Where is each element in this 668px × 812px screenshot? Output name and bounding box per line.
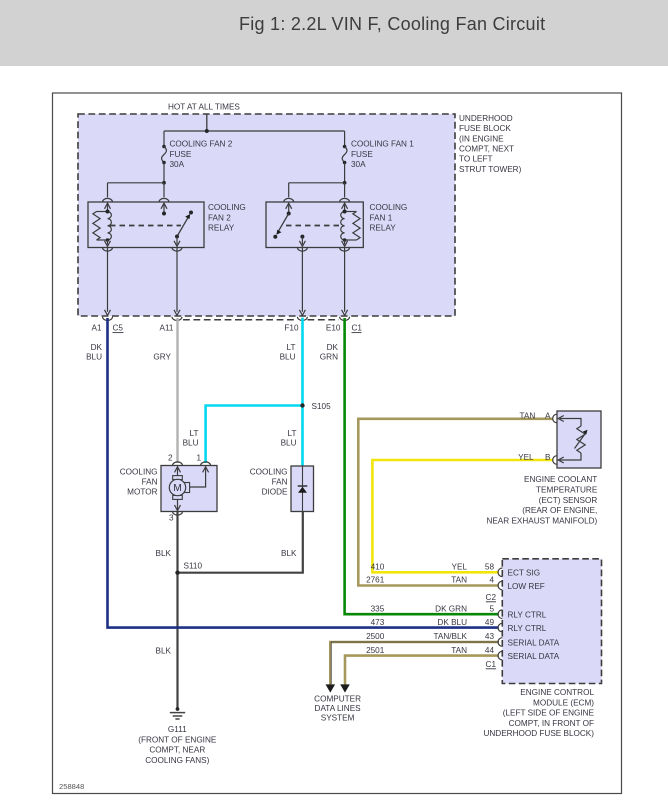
svg-text:FAN 2: FAN 2: [208, 213, 231, 222]
svg-text:TAN: TAN: [520, 411, 536, 420]
wire: relay K1 coil low to terminal E10: [342, 248, 348, 315]
ECT sensor pin B connector: [545, 453, 564, 464]
svg-text:FUSE BLOCK: FUSE BLOCK: [459, 124, 511, 133]
ECT thermistor: [560, 419, 588, 461]
svg-text:E10: E10: [326, 324, 341, 333]
svg-text:TAN/BLK: TAN/BLK: [433, 632, 467, 641]
relay K2 coil-switch link (dashed): [110, 225, 181, 227]
svg-text:COMPT, NEXT: COMPT, NEXT: [459, 144, 514, 153]
svg-text:FUSE: FUSE: [170, 150, 192, 159]
svg-text:DK GRN: DK GRN: [435, 604, 467, 613]
svg-text:5: 5: [489, 604, 494, 613]
cooling fan diode box: [250, 466, 314, 512]
svg-text:BLU: BLU: [86, 353, 102, 362]
node: computer data lines system: [314, 695, 361, 723]
svg-text:ENGINE COOLANT: ENGINE COOLANT: [524, 475, 597, 484]
motor pin 3 connector: [169, 499, 183, 522]
svg-text:44: 44: [485, 646, 495, 655]
svg-text:UNDERHOOD: UNDERHOOD: [459, 114, 513, 123]
wire: DK BLU circuit 473 (relay K2 coil low to ECM pin 49): [86, 318, 499, 628]
svg-text:335: 335: [371, 604, 385, 613]
relay K2 bottom pin (coil low) connector: [103, 240, 113, 251]
svg-text:LT: LT: [287, 343, 296, 352]
terminal E10 / connector C1: [326, 317, 362, 333]
svg-text:C1: C1: [352, 324, 363, 333]
splice S105: [300, 402, 331, 411]
svg-text:C2: C2: [486, 593, 497, 602]
svg-text:DK BLU: DK BLU: [437, 618, 467, 627]
svg-text:COOLING: COOLING: [370, 203, 408, 212]
svg-text:HOT AT ALL TIMES: HOT AT ALL TIMES: [168, 103, 240, 112]
svg-text:ENGINE CONTROL: ENGINE CONTROL: [520, 688, 594, 697]
wire: DK GRN circuit 335 (relay K1 coil low to ECM pin 5): [320, 318, 499, 614]
svg-text:BLU: BLU: [281, 439, 297, 448]
svg-text:BLU: BLU: [280, 353, 296, 362]
svg-text:DATA LINES: DATA LINES: [315, 704, 362, 713]
wire: YEL circuit 410 (ECT sensor pin B to ECM pin 58, ECT SIG): [371, 453, 553, 572]
svg-text:FAN 1: FAN 1: [370, 213, 393, 222]
wire: battery feed bus: [164, 115, 345, 134]
motor symbol: [169, 476, 189, 500]
svg-text:BLK: BLK: [156, 549, 172, 558]
svg-text:43: 43: [485, 632, 495, 641]
relay K2 top pin (switch feed) connector: [159, 198, 169, 215]
wire: GRY (relay K2 switch out to motor pin 2): [153, 318, 177, 463]
terminal A1 / connector C5: [91, 317, 123, 333]
svg-text:(FRONT OF ENGINE: (FRONT OF ENGINE: [138, 735, 217, 744]
svg-text:1: 1: [196, 454, 201, 463]
svg-text:COOLING: COOLING: [208, 203, 246, 212]
svg-text:M: M: [173, 483, 181, 494]
relay K1 top pin (switch feed) connector: [284, 198, 294, 215]
svg-text:FAN: FAN: [142, 478, 158, 487]
wire: fuse F2 output to relay K2 pins: [108, 163, 166, 198]
wire: BLK from motor pin 3 to S110 and ground G111: [156, 512, 178, 708]
svg-text:COOLING FAN 2: COOLING FAN 2: [170, 140, 233, 149]
svg-text:LOW REF: LOW REF: [508, 582, 545, 591]
relay K1 bottom pin (switch out) connector: [297, 235, 307, 251]
relay K2 bottom pin (switch out) connector: [172, 237, 182, 252]
terminal A11: [160, 317, 182, 333]
svg-text:258848: 258848: [59, 782, 84, 791]
svg-text:2761: 2761: [366, 576, 385, 585]
svg-text:2500: 2500: [366, 632, 385, 641]
svg-text:STRUT TOWER): STRUT TOWER): [459, 165, 522, 174]
svg-text:RLY CTRL: RLY CTRL: [508, 624, 547, 633]
relay K2 top pin (coil feed) connector: [103, 198, 113, 213]
ECM pin 44 SERIAL DATA: [498, 651, 560, 661]
svg-text:58: 58: [485, 563, 495, 572]
underhood fuse block (dashed box): [78, 114, 522, 320]
svg-text:MOTOR: MOTOR: [127, 487, 157, 496]
svg-text:30A: 30A: [351, 160, 366, 169]
svg-text:RELAY: RELAY: [208, 224, 235, 233]
svg-text:FAN: FAN: [272, 478, 288, 487]
svg-text:COOLING: COOLING: [120, 468, 158, 477]
svg-text:GRY: GRY: [153, 353, 171, 362]
svg-text:RLY CTRL: RLY CTRL: [508, 611, 547, 620]
svg-text:ECT SIG: ECT SIG: [508, 569, 541, 578]
relay K2 coil: [93, 210, 111, 242]
svg-text:30A: 30A: [170, 160, 185, 169]
svg-text:(IN ENGINE: (IN ENGINE: [459, 134, 504, 143]
relay K1 coil: [341, 210, 360, 242]
motor pin 2 connector: [168, 454, 183, 476]
relay K1 coil-switch link (dashed): [286, 225, 341, 227]
svg-text:LT: LT: [288, 429, 297, 438]
svg-text:TO LEFT: TO LEFT: [459, 155, 493, 164]
svg-text:BLU: BLU: [183, 439, 199, 448]
svg-text:2: 2: [168, 454, 173, 463]
wire: fuse F1 output to relay K1 pins: [289, 163, 347, 198]
svg-text:BLK: BLK: [156, 647, 172, 656]
svg-text:LT: LT: [190, 429, 199, 438]
wire: TAN/BLK circuit 2500 (ECM pin 43 serial data): [326, 632, 499, 692]
svg-text:G111: G111: [168, 725, 187, 734]
ECT sensor pin A connector: [545, 411, 564, 422]
svg-text:S110: S110: [184, 562, 203, 571]
ECM pin 5 RLY CTRL: [498, 610, 547, 620]
svg-text:MODULE (ECM): MODULE (ECM): [533, 698, 594, 707]
svg-text:A1: A1: [91, 324, 101, 333]
svg-text:COOLING FANS): COOLING FANS): [145, 756, 209, 765]
svg-text:YEL: YEL: [518, 453, 534, 462]
relay K2: COOLING FAN 2 RELAY box: [88, 202, 246, 248]
wire: TAN circuit 2501 (ECM pin 44 serial data): [340, 646, 499, 692]
svg-text:TAN: TAN: [451, 576, 467, 585]
ECT sensor box: [486, 411, 601, 525]
svg-text:2501: 2501: [366, 646, 385, 655]
svg-text:SERIAL DATA: SERIAL DATA: [508, 638, 560, 647]
wire: relay K1 switch out to terminal F10: [299, 248, 305, 315]
svg-text:Fig 1: 2.2L VIN F, Cooling Fan: Fig 1: 2.2L VIN F, Cooling Fan Circuit: [239, 14, 545, 34]
ECM pin 4 LOW REF: [498, 581, 545, 591]
relay K1 switch blade: [273, 214, 288, 239]
svg-text:DK: DK: [327, 343, 339, 352]
svg-text:B: B: [545, 453, 551, 462]
relay K2 switch blade: [175, 211, 193, 239]
svg-text:A: A: [545, 411, 551, 420]
wire: LT BLU circuit (relay K1 switch out to S105, motor pin 1, diode): [183, 318, 303, 466]
fuse F1: COOLING FAN 1 FUSE 30A: [342, 131, 414, 169]
ground G111: [138, 707, 217, 765]
wire: BLK from diode to S110: [178, 512, 303, 573]
svg-text:COOLING: COOLING: [250, 468, 288, 477]
svg-text:UNDERHOOD FUSE BLOCK): UNDERHOOD FUSE BLOCK): [483, 729, 594, 738]
svg-text:COMPT, NEAR: COMPT, NEAR: [149, 746, 205, 755]
ECM pin 43 SERIAL DATA: [498, 638, 560, 648]
svg-text:C5: C5: [113, 324, 124, 333]
ECM connector C1: [486, 660, 497, 669]
engine control module (ECM) box: [483, 559, 601, 738]
svg-text:(ECT) SENSOR: (ECT) SENSOR: [539, 496, 598, 505]
svg-text:4: 4: [489, 576, 494, 585]
diode symbol: [298, 466, 308, 512]
svg-text:(REAR OF ENGINE,: (REAR OF ENGINE,: [522, 506, 597, 515]
wire: TAN circuit 2761 (ECT sensor pin A to ECM pin 4, LOW REF): [358, 411, 553, 585]
svg-text:NEAR EXHAUST MANIFOLD): NEAR EXHAUST MANIFOLD): [486, 516, 597, 525]
svg-text:COMPT, IN FRONT OF: COMPT, IN FRONT OF: [509, 719, 594, 728]
svg-text:S105: S105: [312, 402, 332, 411]
terminal F10: [284, 317, 307, 333]
svg-text:(LEFT SIDE OF ENGINE: (LEFT SIDE OF ENGINE: [503, 709, 595, 718]
relay K1 top pin (coil feed) connector: [340, 198, 350, 213]
svg-text:3: 3: [169, 514, 174, 523]
ECM pin 49 RLY CTRL: [498, 623, 547, 633]
motor pin 1 connector: [190, 454, 211, 487]
svg-text:SYSTEM: SYSTEM: [321, 714, 355, 723]
svg-text:TEMPERATURE: TEMPERATURE: [536, 486, 598, 495]
wire: relay K2 switch out to terminal A11: [174, 248, 180, 315]
svg-text:TAN: TAN: [451, 646, 467, 655]
relay K1: COOLING FAN 1 RELAY box: [266, 202, 407, 248]
svg-text:A11: A11: [160, 324, 174, 333]
power feed label: HOT AT ALL TIMES: [168, 103, 240, 112]
svg-text:49: 49: [485, 618, 495, 627]
svg-text:C1: C1: [486, 660, 497, 669]
svg-text:410: 410: [371, 563, 385, 572]
fuse F2: COOLING FAN 2 FUSE 30A: [162, 131, 233, 169]
svg-text:473: 473: [371, 618, 385, 627]
wire: relay K2 coil low to terminal A1: [105, 248, 111, 315]
svg-text:DK: DK: [91, 343, 103, 352]
svg-text:COOLING FAN 1: COOLING FAN 1: [351, 140, 414, 149]
svg-text:FUSE: FUSE: [351, 150, 373, 159]
svg-text:SERIAL DATA: SERIAL DATA: [508, 652, 560, 661]
svg-text:BLK: BLK: [281, 549, 297, 558]
svg-text:RELAY: RELAY: [370, 224, 397, 233]
ECM connector C2: [486, 593, 497, 602]
ECM pin 58 ECT SIG: [498, 568, 540, 578]
svg-text:F10: F10: [284, 324, 299, 333]
svg-text:GRN: GRN: [320, 353, 338, 362]
svg-text:DIODE: DIODE: [262, 487, 288, 496]
svg-text:COMPUTER: COMPUTER: [314, 695, 361, 704]
relay K1 bottom pin (coil low) connector: [340, 240, 350, 251]
cooling fan motor M box: [120, 466, 217, 512]
svg-text:YEL: YEL: [452, 563, 468, 572]
splice S110: [175, 562, 202, 575]
